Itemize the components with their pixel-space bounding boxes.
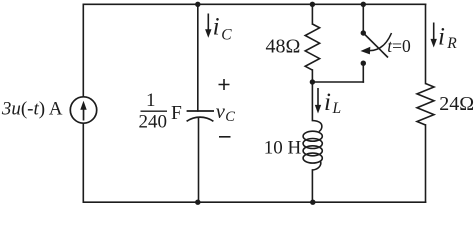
current arrow i_C — [207, 14, 209, 31]
svg-text:C: C — [221, 27, 232, 44]
svg-text:i: i — [438, 24, 445, 51]
wire inductor branch upper — [311, 82, 313, 121]
svg-text:i: i — [213, 14, 220, 41]
node bottom inductor — [310, 200, 315, 205]
label plus — [219, 79, 230, 90]
wire right upper — [425, 4, 427, 83]
resistor R2 24ohm — [417, 84, 434, 126]
wire capacitor branch lower — [198, 119, 200, 203]
current source I1 3u(-t) A — [70, 97, 96, 123]
svg-text:F: F — [171, 103, 182, 124]
switch S1 — [361, 30, 392, 66]
svg-text:C: C — [225, 109, 235, 125]
label minus — [219, 136, 231, 138]
wire left lower — [82, 123, 84, 202]
svg-text:1: 1 — [146, 90, 156, 111]
node top capacitor — [195, 2, 200, 7]
resistor R1 48ohm — [305, 24, 319, 70]
current arrow i_L — [317, 88, 319, 106]
wire 48ohm branch lower — [311, 70, 313, 82]
node top 48ohm — [310, 2, 315, 7]
wire 48ohm branch upper — [311, 4, 313, 24]
switch upper contact — [361, 30, 366, 35]
svg-text:3u(-t) A: 3u(-t) A — [1, 99, 63, 120]
switch motion arc — [370, 33, 392, 51]
svg-text:i: i — [324, 89, 331, 116]
inductor L1 10H — [303, 121, 322, 171]
wire inductor branch lower — [311, 170, 313, 202]
svg-text:240: 240 — [139, 111, 168, 132]
svg-text:t=0: t=0 — [387, 36, 411, 56]
node top switch — [361, 2, 366, 7]
wire capacitor branch upper — [197, 4, 199, 111]
svg-text:R: R — [446, 35, 457, 52]
wire switch to node — [312, 81, 363, 83]
wire bottom — [83, 201, 425, 203]
node 48ohm-inductor-switch junction — [310, 79, 315, 84]
node bottom capacitor — [195, 200, 200, 205]
current arrow i_R — [433, 23, 435, 41]
svg-text:L: L — [332, 100, 342, 117]
switch lower contact — [361, 61, 366, 66]
wire switch branch upper — [362, 4, 364, 33]
switch blade — [363, 33, 388, 58]
wire left upper — [82, 4, 84, 97]
capacitor C1 plates — [187, 111, 214, 121]
svg-text:24Ω: 24Ω — [439, 93, 474, 115]
wire switch branch lower — [362, 63, 364, 82]
svg-text:10 H: 10 H — [264, 138, 302, 159]
svg-text:48Ω: 48Ω — [266, 36, 301, 58]
wire right lower — [425, 125, 427, 202]
wire top — [83, 3, 425, 5]
